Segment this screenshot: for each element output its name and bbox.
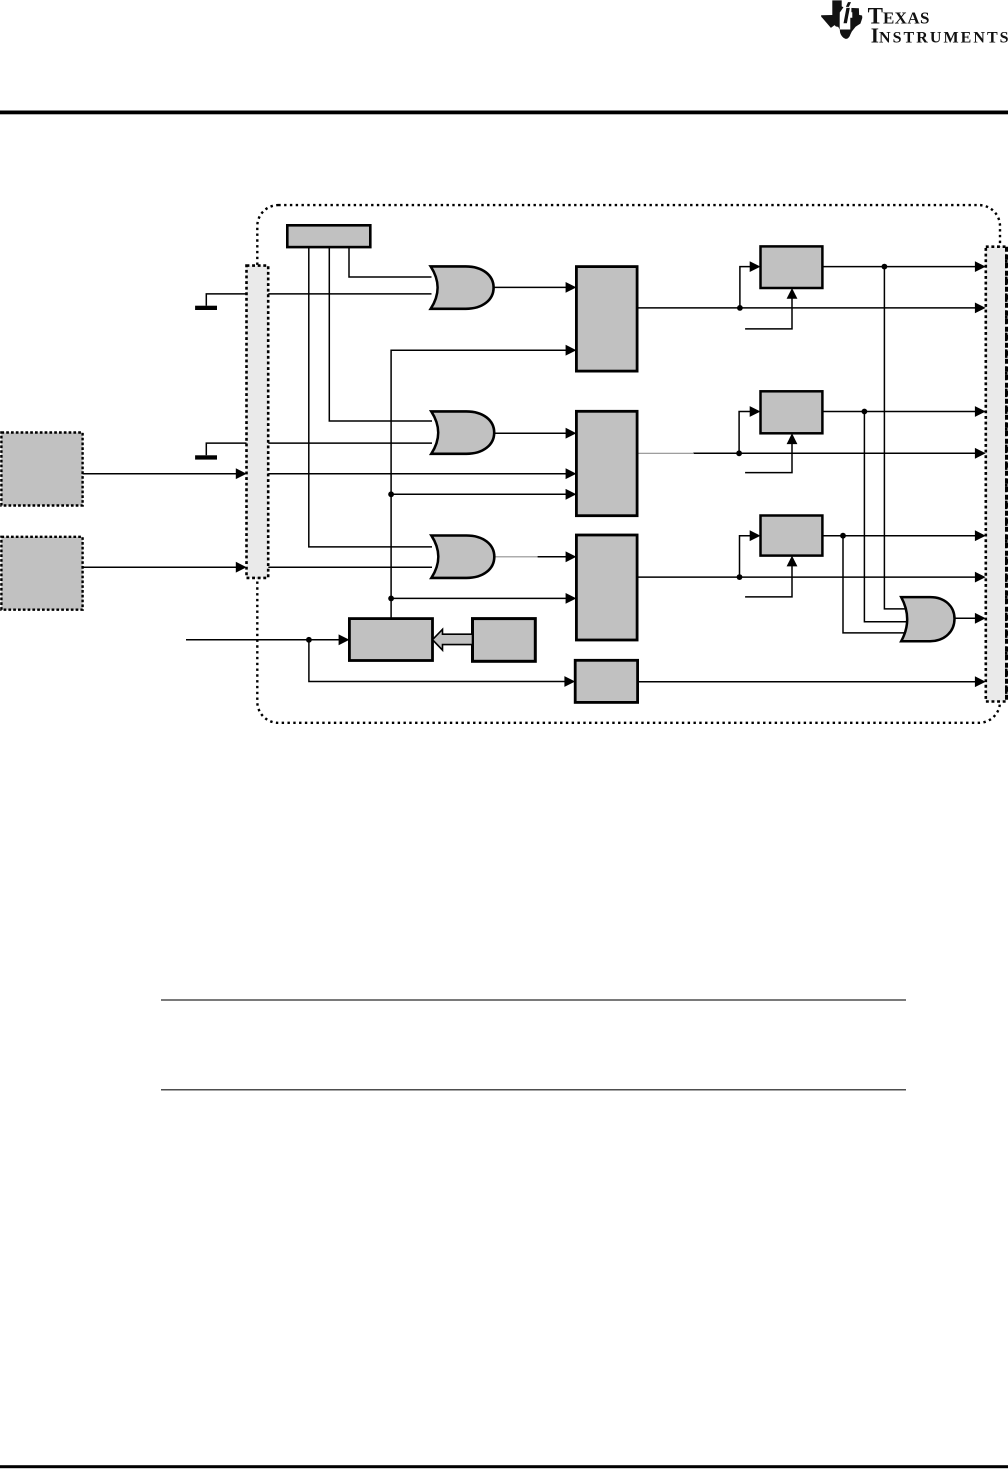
block R2 (576, 411, 637, 515)
arrow bus out row 266 (975, 261, 986, 272)
control register (top rect) (287, 225, 370, 247)
arrow bus out row 411 (975, 406, 986, 417)
wire or2 lower feed (268, 442, 432, 444)
wire F2 set stub (739, 412, 751, 454)
junction dot F1 out (882, 264, 888, 270)
divider block (473, 619, 536, 662)
wire vertical net 391 (391, 350, 566, 618)
wire F2 clock stub (745, 443, 792, 472)
wire F1 net to or4 input1 (884, 267, 907, 609)
OR gate U4 (901, 597, 954, 641)
wire ctrl v1 to or3 upper (309, 247, 432, 547)
wire F3 out (822, 535, 976, 537)
ground GND2 bar (195, 455, 217, 459)
wire R2 out black part (693, 452, 976, 454)
arrow F3 clock (787, 556, 798, 567)
wire tap to R3 input2 (391, 597, 566, 599)
wire block A to input bus (83, 473, 238, 475)
wire or4 out (955, 617, 977, 619)
input bus (left bar) (247, 266, 269, 578)
arrow F2 set input (750, 406, 761, 417)
flip-flop F2 (761, 391, 823, 433)
wire F1 out (822, 266, 976, 268)
arrow R1 input1 (566, 282, 577, 293)
wire bottom branch to R4 (309, 640, 565, 682)
OR gate U2 (431, 411, 494, 453)
wire R1 out to output bus (637, 307, 976, 309)
wire F3 clock stub (745, 566, 792, 597)
block R4 (575, 660, 637, 702)
wire F2 out (822, 411, 976, 413)
wire or2 out to R2 (494, 432, 566, 434)
wire or1 out to R1 (493, 286, 566, 288)
block R1 (576, 267, 637, 372)
arrow F1 set input (750, 261, 761, 272)
ground GND2 (206, 443, 246, 455)
junction dot net391 row494 (388, 491, 394, 497)
junction dot F2 out (862, 409, 868, 415)
OR gate U3 (431, 536, 494, 578)
arrow into input bus row 567 (236, 562, 247, 573)
wire F2 net to or4 input2 (864, 412, 907, 622)
wire row 473 to R2 (268, 473, 566, 475)
OR gate U1 (431, 266, 494, 308)
arrow bus out row 618 (975, 613, 986, 624)
flip-flop F1 (761, 246, 823, 288)
wire R2 out gray hairline (637, 452, 694, 454)
TI logo Texas-state glyph (821, 0, 862, 38)
module boundary (dotted rounded rect) (257, 205, 1000, 723)
junction dot R1 out (737, 305, 743, 311)
wire R3 out (637, 576, 976, 578)
output bus (right bar) (986, 247, 1007, 702)
block A (left dotted box 1) (1, 433, 82, 506)
junction dot R2 out (736, 450, 742, 456)
header rule (0, 111, 1008, 115)
junction dot bottom input (306, 637, 312, 643)
wire tap to R2 input3 (391, 493, 566, 495)
arrow R2 input1 (566, 428, 577, 439)
output bus right heavy dashed edge (1005, 247, 1008, 702)
arrow into osc block (339, 634, 350, 645)
ground GND1 bar (195, 306, 217, 310)
arrow F3 set input (750, 530, 761, 541)
fat arrow divider to oscillator (433, 629, 473, 650)
arrow R3 input1 (566, 551, 577, 562)
wire F3 set stub (740, 536, 752, 577)
arrow bus out row 577 (975, 572, 986, 583)
wire ctrl v3 to or1 upper (349, 247, 432, 277)
wire F1 set stub (740, 267, 751, 308)
arrow F2 clock (787, 433, 798, 444)
footer rule (0, 1465, 1008, 1468)
wire bottom input to osc (186, 639, 340, 641)
arrow R2 input3 (566, 489, 577, 500)
junction dot R3 out (737, 574, 743, 580)
arrow bus out row 536 (975, 530, 986, 541)
arrow R2 input2 (566, 468, 577, 479)
block R3 (576, 535, 637, 640)
arrow R1 input2 (566, 345, 577, 356)
oscillator block (349, 619, 432, 661)
wire or1 lower feed (268, 293, 431, 295)
wire block B to input bus (83, 566, 238, 568)
block B (left dotted box 2) (1, 537, 82, 610)
ground GND1 (206, 294, 246, 306)
flip-flop F3 (761, 516, 823, 556)
table rule top (161, 999, 906, 1000)
wire or3 lower feed (268, 566, 432, 568)
arrow bus out row 682 (975, 676, 986, 687)
wire or3 out gray hairline (494, 556, 538, 558)
wire F3 net to or4 input3 (843, 536, 907, 633)
wire or3 out to R3 black part (537, 556, 567, 558)
junction dot net391 row598 (388, 596, 394, 602)
arrow R3 input2 (566, 593, 577, 604)
arrow F1 clock (787, 288, 798, 299)
wire F1 clock stub (745, 298, 792, 329)
junction dot F3 out (840, 533, 846, 539)
wire ctrl v2 to or2 upper (329, 247, 432, 421)
table rule bottom (161, 1089, 906, 1090)
arrow R4 input (564, 676, 575, 687)
wire R4 out (638, 681, 976, 683)
arrow into input bus row 473 (236, 468, 247, 479)
arrow bus out row 308 (975, 303, 986, 314)
arrow bus out row 453 (975, 448, 986, 459)
